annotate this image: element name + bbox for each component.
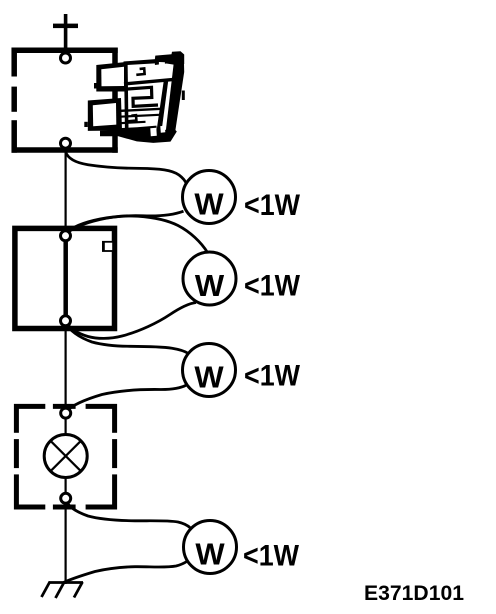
svg-text:E371D101: E371D101 — [364, 582, 464, 605]
svg-text:<1W: <1W — [244, 189, 301, 222]
svg-text:<1W: <1W — [244, 360, 301, 393]
svg-text:<1W: <1W — [244, 270, 301, 303]
svg-text:<1W: <1W — [243, 539, 300, 572]
svg-text:W: W — [195, 268, 225, 303]
svg-text:W: W — [195, 537, 225, 572]
svg-text:W: W — [194, 187, 224, 222]
svg-text:W: W — [194, 360, 224, 395]
